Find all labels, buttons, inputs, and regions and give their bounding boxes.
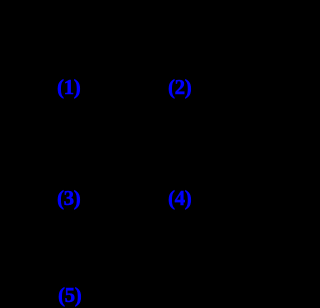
label (5) xyxy=(58,285,81,306)
label (2) xyxy=(168,77,191,98)
label (3) xyxy=(57,188,80,209)
label (4) xyxy=(168,188,191,209)
label (1) xyxy=(57,77,80,98)
